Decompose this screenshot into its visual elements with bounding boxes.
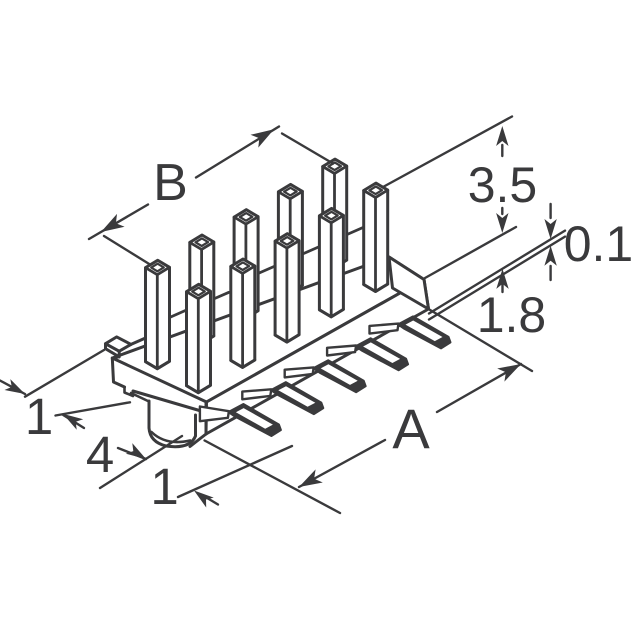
smd foot 2 top face: [278, 386, 315, 407]
extension line from body left bottom: [56, 402, 131, 415]
dimension 0.1 lower stem: [549, 266, 551, 280]
smd foot 2 body: [271, 382, 324, 414]
connector body top face: [112, 257, 424, 402]
platform back edge segment 2: [214, 292, 229, 299]
dimension 3.5 up arrowhead: [496, 126, 508, 146]
pin header pin B5 (back row): [323, 159, 347, 267]
dimension 1 bottom arrowhead: [194, 491, 214, 508]
dimension 1 bottom line: [178, 446, 292, 497]
dimension 0.1 up arrowhead: [544, 246, 556, 266]
platform back edge segment 5: [347, 228, 363, 235]
pin header pin F3 (front row): [275, 234, 299, 342]
dimension 3.5 line lower stem: [501, 208, 503, 214]
extension line from pin tips: [383, 117, 512, 188]
svg-text:0.1: 0.1: [564, 216, 634, 272]
dimension 1.8 stem: [501, 282, 503, 292]
platform back edge segment 1b: [192, 319, 202, 323]
left end notch: [125, 387, 134, 396]
dimension 1 left arrowhead: [5, 379, 26, 394]
dimension B left arrowhead: [101, 214, 125, 232]
dimension A extension line left: [205, 441, 340, 514]
dimension A right arrowhead: [497, 364, 521, 382]
tab top face: [106, 337, 132, 351]
tab front face: [106, 344, 120, 357]
dimension 0.1 upper stem: [549, 204, 551, 218]
extension line from tab: [25, 350, 104, 397]
platform back edge segment 1: [170, 310, 187, 318]
pin header pin B1 (back row): [146, 260, 170, 368]
svg-text:3.5: 3.5: [468, 157, 538, 213]
smd foot 1 top face: [236, 408, 273, 429]
dimension A line right segment: [437, 364, 521, 412]
dimension 0.1 down arrowhead: [544, 219, 556, 239]
peg bottom rim: [152, 432, 191, 442]
smd lead 3: [285, 367, 314, 377]
smd foot 5 top face: [406, 321, 443, 342]
seating plane line lower: [429, 237, 565, 320]
platform back edge segment 3: [258, 267, 274, 274]
extension line from peg: [100, 436, 182, 488]
pin header pin B4 (back row): [278, 184, 302, 292]
dimension B extension line right: [282, 134, 333, 164]
svg-text:1: 1: [150, 458, 178, 515]
dimension A left arrowhead: [299, 469, 323, 487]
dimension A extension line right: [429, 309, 533, 371]
locating peg: [149, 401, 196, 447]
tab bottom to body: [113, 357, 119, 358]
seating plane line upper: [429, 231, 565, 314]
dimension 4 line left segment: [63, 415, 84, 428]
svg-text:1.8: 1.8: [477, 287, 547, 343]
pin header pin B3 (back row): [234, 210, 258, 318]
smd foot 1 body: [228, 404, 281, 436]
pin header pin B2 (back row): [190, 235, 214, 343]
connector body right end face: [389, 257, 429, 309]
pin header pin F5 (front row): [364, 183, 388, 291]
body front-left vertical edge: [205, 402, 208, 434]
smd lead 2: [242, 389, 271, 399]
body base left edge: [131, 393, 149, 402]
body left end lower edge left part: [112, 358, 124, 387]
pin header pin F1 (front row): [187, 284, 211, 392]
svg-text:1: 1: [25, 388, 53, 445]
tab to body edge: [131, 338, 146, 344]
smd foot 5 body: [398, 316, 451, 348]
smd lead 5: [370, 324, 399, 334]
dimension 4 line right segment: [118, 448, 146, 459]
platform back edge segment 4: [303, 247, 319, 254]
dimension B line left segment: [89, 205, 148, 240]
body left end lower edge right part: [133, 391, 205, 412]
svg-text:4: 4: [86, 426, 114, 483]
svg-text:A: A: [392, 397, 430, 460]
smd lead 4: [327, 346, 356, 356]
smd lead 1: [200, 407, 229, 422]
smd foot 3 body: [313, 360, 366, 392]
dimension 3.5 line upper stem: [501, 145, 503, 156]
dimension 1 left line: [0, 381, 25, 395]
dimension 1.8 up arrowhead: [496, 269, 508, 289]
smd foot 4 body: [356, 338, 409, 370]
connector body front face: [206, 280, 429, 435]
dimension B right arrowhead: [251, 129, 275, 147]
smd foot 4 top face: [363, 342, 400, 363]
pin header pin F4 (front row): [319, 208, 343, 316]
dimension B line right segment: [196, 127, 279, 178]
dimension 1 bottom tail stub: [208, 499, 218, 505]
svg-text:B: B: [153, 154, 188, 212]
dimension A line left segment: [299, 440, 385, 487]
dimension B extension line left: [104, 236, 150, 265]
pin header pin F2 (front row): [231, 259, 255, 367]
dimension 4 right arrowhead: [126, 443, 146, 459]
dimension 3.5 down arrowhead: [496, 213, 508, 233]
dimension 4 left arrowhead: [63, 414, 83, 430]
smd foot 3 top face: [321, 364, 358, 385]
body base bottom-left edge: [190, 434, 206, 447]
extension line from body top edge: [425, 227, 516, 278]
